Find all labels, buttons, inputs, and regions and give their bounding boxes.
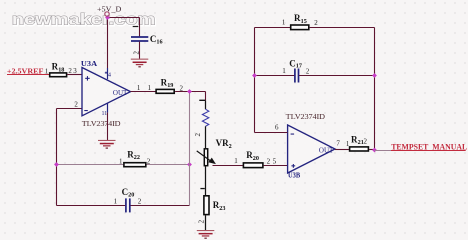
wire +5V vertical to U3A pin4 [107,16,109,68]
lead VR2 to R23 [205,166,207,195]
svg-text:1: 1 [45,68,49,76]
potentiometer VR2 [197,138,232,166]
wire C17 row right [299,75,375,77]
svg-text:2: 2 [68,67,72,75]
wire R18 to U3A pin3 [67,74,82,76]
svg-text:1: 1 [282,67,286,75]
svg-text:+5V_D: +5V_D [97,4,122,13]
wire R19 to VR2 column [175,91,205,93]
capacitor C20 [114,187,142,212]
capacitor C16 [131,26,163,55]
wire C16 top lead [139,18,141,37]
junction at +5V node [105,15,110,20]
svg-text:1: 1 [234,157,238,165]
svg-text:VR: VR [216,138,229,148]
junction C17 left [252,73,257,78]
svg-text:2: 2 [267,158,271,166]
svg-text:1: 1 [148,84,152,92]
wire C17 row left [255,75,295,77]
power port +5V_D [97,4,122,16]
wire R22 row mauve left [57,164,124,166]
svg-text:18: 18 [58,66,64,73]
svg-text:1: 1 [119,157,123,165]
wire +5V rail horizontal [108,17,140,19]
svg-text:19: 19 [167,82,173,89]
wire U3A output [131,91,156,93]
junction R22 left [54,162,59,167]
svg-text:17: 17 [296,63,302,70]
wire C20 row left [57,205,126,207]
net label TEMPSET_MANUAL [391,142,468,151]
wire C16 bottom lead [139,42,141,59]
net label +2.5VREF [7,68,49,76]
svg-text:1: 1 [282,18,286,26]
ground under C16 [131,59,149,68]
svg-text:2: 2 [74,101,78,109]
wire VR2 wiper to R20 [213,165,243,167]
wire output to net label [375,150,392,152]
svg-text:2: 2 [314,19,318,27]
svg-text:2: 2 [147,157,151,165]
wire U3A pin11 to ground [107,113,109,141]
wire R21 to junction [369,149,374,151]
svg-text:2: 2 [198,219,206,223]
svg-text:2: 2 [138,197,142,205]
wire R20 to U3B pin5 [264,165,288,167]
svg-text:2: 2 [364,137,368,145]
svg-text:2: 2 [194,133,202,137]
resistor R23 [198,188,226,224]
wire right loop vertical [374,28,376,151]
wire left loop vertical [254,28,256,133]
wire R15 row left [255,27,291,29]
svg-text:TLV2374ID: TLV2374ID [286,113,325,121]
ground under R23 [197,230,215,239]
wire feedback left vertical [56,109,58,206]
op-amp U3B [275,123,350,179]
svg-text:TEMPSET_MANUAL: TEMPSET_MANUAL [391,142,467,151]
wire R15 row right [310,27,375,29]
svg-text:11: 11 [102,111,108,117]
capacitor C17 [282,58,310,82]
svg-text:15: 15 [301,18,307,25]
wire mauve vertical [189,92,191,206]
resistor zigzag above VR2 [194,100,209,149]
resistor R19 [137,77,184,93]
wire R22 row mauve right [147,164,190,166]
svg-text:2: 2 [229,143,232,150]
svg-text:22: 22 [134,154,140,161]
svg-text:U3A: U3A [81,59,98,68]
svg-text:1: 1 [137,84,141,92]
svg-text:2: 2 [306,69,310,76]
svg-text:TLV2374ID: TLV2374ID [82,120,121,128]
svg-text:U3B: U3B [288,172,300,180]
resistor R18 [45,62,77,77]
op-amp U3A [74,59,130,117]
junction C17 right [372,73,377,78]
svg-text:20: 20 [253,155,259,162]
wire VR2 column top [205,92,207,101]
wire U3A pin2 horizontal [57,108,82,110]
svg-text:1: 1 [114,197,118,205]
resistor R22 [119,150,151,167]
wire to U3B pin6 [255,132,288,134]
svg-text:OUT: OUT [113,89,128,97]
svg-text:23: 23 [219,205,225,212]
svg-text:5: 5 [273,158,277,166]
resistor R21 [350,134,369,151]
junction R22 right [187,162,192,167]
svg-text:OUT: OUT [319,147,334,155]
lead R23 to ground [205,215,207,230]
svg-text:6: 6 [275,123,279,131]
wire U3B output [335,149,349,151]
svg-text:3: 3 [73,67,77,75]
junction under R19 [187,89,192,94]
svg-text:20: 20 [128,192,134,199]
ground under U3A [98,140,116,149]
svg-text:16: 16 [156,39,162,46]
svg-text:4: 4 [108,71,111,78]
svg-text:7: 7 [336,139,340,147]
junction output node [372,148,377,153]
resistor R15 [282,13,318,29]
wire C20 row right [130,205,189,207]
resistor R20 [234,150,276,167]
